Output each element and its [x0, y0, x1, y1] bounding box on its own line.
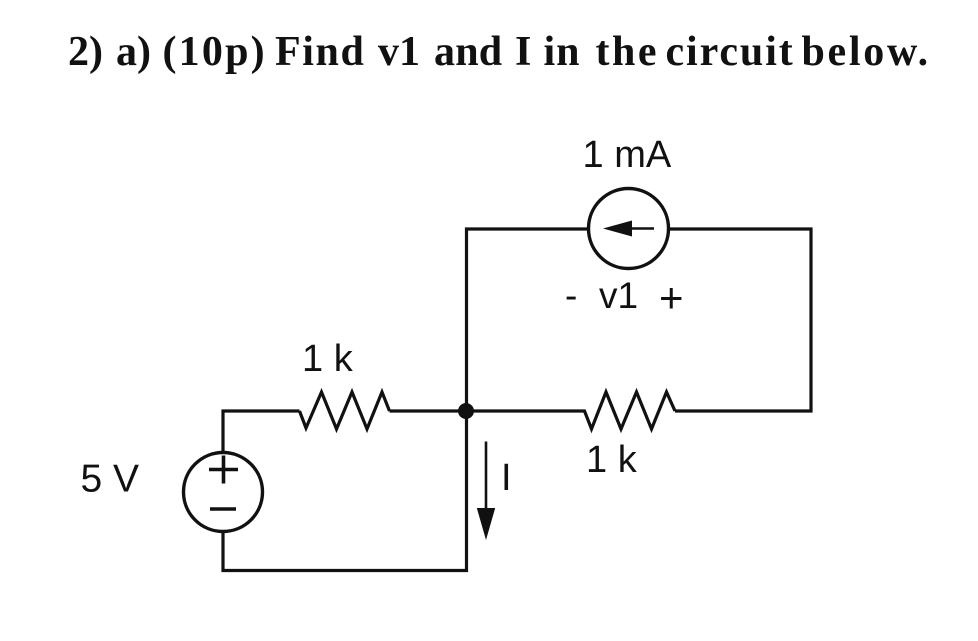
svg-text:I: I [501, 457, 512, 499]
svg-text:1 k: 1 k [302, 338, 354, 380]
svg-text:1 mA: 1 mA [583, 134, 672, 176]
svg-text:Find: Find [275, 29, 365, 75]
wire middle rail [390, 409, 584, 412]
svg-text:I: I [515, 29, 531, 75]
svg-text:-: - [565, 275, 577, 316]
minus symbol in source [210, 507, 236, 511]
title [68, 29, 931, 75]
resistor R1 1k (left) [300, 392, 390, 429]
svg-text:v1: v1 [599, 275, 638, 316]
svg-text:v1: v1 [378, 29, 420, 75]
voltage source V1 circle [184, 453, 263, 532]
resistor R2 1k (right) [583, 392, 675, 429]
svg-text:(10p): (10p) [163, 29, 267, 75]
svg-text:in: in [544, 29, 581, 75]
current I arrow [485, 442, 488, 515]
node junction dot [458, 403, 474, 419]
svg-text:2): 2) [68, 29, 103, 75]
plus symbol in source [209, 456, 238, 484]
svg-text:5 V: 5 V [81, 458, 140, 501]
wire top right segment [670, 229, 811, 411]
wire top left segment [467, 229, 588, 411]
wire below source [223, 411, 467, 571]
svg-text:and: and [434, 29, 502, 75]
current source I1 circle [589, 189, 669, 269]
svg-text:below.: below. [802, 29, 931, 75]
current source arrow [628, 227, 654, 230]
svg-text:the: the [596, 29, 660, 75]
svg-text:1 k: 1 k [586, 439, 638, 481]
wire left rail [223, 411, 300, 451]
svg-text:a): a) [116, 29, 151, 75]
svg-text:circuit: circuit [666, 29, 795, 75]
svg-text:+: + [659, 274, 684, 321]
